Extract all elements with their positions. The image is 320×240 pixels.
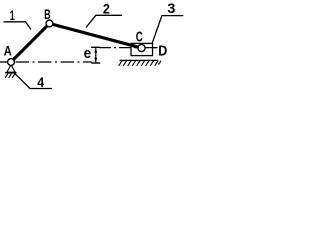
svg-text:1: 1 [10, 7, 15, 23]
svg-text:e: e [84, 45, 92, 62]
svg-text:3: 3 [167, 0, 175, 16]
svg-text:2: 2 [103, 1, 110, 17]
svg-text:4: 4 [37, 74, 44, 90]
svg-text:B: B [44, 6, 51, 22]
svg-text:D: D [158, 42, 167, 59]
svg-text:A: A [4, 43, 12, 59]
svg-text:C: C [136, 29, 143, 46]
